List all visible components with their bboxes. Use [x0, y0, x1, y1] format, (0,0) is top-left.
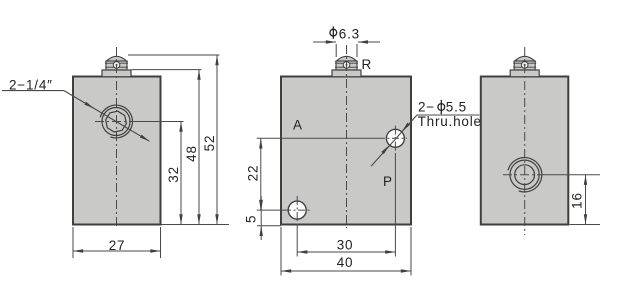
- thru hole bottom-left: [288, 201, 306, 219]
- dim 22 dimension line: [260, 138, 262, 210]
- middle view vertical centerline: [346, 45, 348, 228]
- svg-text:30: 30: [337, 237, 354, 252]
- thru hole bottom-left horizontal centerline (5 extension): [257, 209, 284, 211]
- bottom extension line for vertical dims: [162, 224, 230, 226]
- svg-text:P: P: [383, 174, 393, 189]
- svg-text:5.5: 5.5: [446, 100, 467, 115]
- svg-text:22: 22: [246, 165, 261, 182]
- left view port inner octagon: [106, 111, 127, 132]
- left view top fitting: [102, 56, 131, 76]
- thru hole top-right: [386, 129, 404, 147]
- leader diagonal line: [64, 91, 150, 142]
- svg-text:16: 16: [570, 192, 585, 209]
- dim 30 dimension line: [297, 251, 395, 253]
- right view port horizontal centerline: [503, 174, 541, 176]
- left view body: [73, 77, 161, 225]
- svg-text:6.3: 6.3: [339, 27, 360, 42]
- hole A/R horizontal centerline (22 extension): [257, 137, 378, 139]
- leader arrowhead on circle: [84, 102, 95, 110]
- svg-text:52: 52: [202, 135, 217, 152]
- dim phi6.3 dimension line left segment: [313, 41, 336, 43]
- svg-text:R: R: [362, 57, 373, 72]
- svg-text:2−: 2−: [418, 100, 435, 115]
- thru hole bottom-left vertical centerline + 30 extension: [296, 196, 298, 224]
- leader 2-phi5.5 diagonal: [371, 115, 417, 166]
- svg-text:32: 32: [166, 166, 181, 183]
- leader 2-phi5.5 arrowhead upper: [401, 123, 410, 133]
- dim 27 extension line left: [72, 227, 74, 258]
- dim 40 extension lines: [280, 227, 282, 276]
- dim 27 dimension line: [73, 250, 161, 252]
- dim 32 top extension line: [130, 121, 184, 123]
- svg-text:Thru.hole: Thru.hole: [418, 114, 482, 129]
- leader 2-phi5.5 arrowhead lower: [381, 144, 390, 154]
- dim phi6.3 extension lines: [335, 44, 337, 57]
- dim 48 top extension line: [132, 69, 202, 71]
- dim phi6.3 dimension line right segment: [358, 41, 380, 43]
- left view vertical centerline: [116, 47, 118, 229]
- right view body: [481, 77, 569, 225]
- left view port thread arc: [100, 105, 132, 138]
- svg-text:48: 48: [184, 145, 199, 162]
- dim 5 lower extension line: [257, 225, 281, 227]
- hole A/R vertical centerline + 30 extension: [394, 126, 396, 153]
- svg-text:A: A: [293, 118, 303, 133]
- right view top fitting: [510, 56, 539, 76]
- right view port thread arc: [508, 158, 542, 192]
- dim 40 dimension line: [281, 270, 411, 272]
- leader arrowhead at line end: [140, 135, 151, 143]
- dim 48 dimension line: [198, 70, 200, 225]
- dim 16 top extension line: [541, 174, 600, 176]
- middle view body: [281, 77, 411, 225]
- leader 2-phi5.5 underline: [417, 114, 479, 116]
- dim 16 dimension line: [585, 175, 587, 225]
- leader underline: [2, 90, 64, 92]
- left view port horizontal centerline: [95, 121, 138, 123]
- dim phi6.3 text: [330, 29, 337, 36]
- right view port inner circle: [515, 165, 535, 185]
- dim 52 top extension line: [128, 54, 220, 56]
- right view vertical centerline: [524, 47, 526, 235]
- svg-text:40: 40: [337, 255, 354, 270]
- middle view top fitting: [332, 56, 361, 76]
- dim 32 dimension line: [180, 122, 182, 225]
- dim 52 dimension line: [216, 55, 218, 225]
- svg-text:5: 5: [244, 215, 259, 223]
- svg-text:27: 27: [109, 238, 126, 253]
- dim 27 extension line right: [160, 227, 162, 258]
- left view port outer circle: [102, 108, 130, 136]
- right view port outer circle: [510, 160, 539, 189]
- dim 5 dimension line: [260, 196, 262, 240]
- dim 16 bottom extension line: [570, 224, 601, 226]
